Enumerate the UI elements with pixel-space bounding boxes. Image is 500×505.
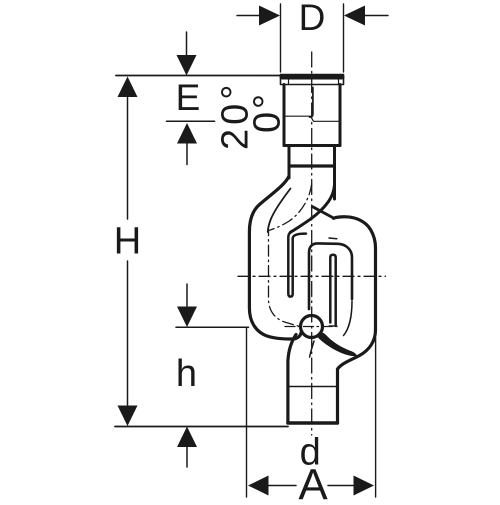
right slot (second U inner walls) [330,255,335,325]
wedge under circle (merged outlines) [317,333,357,357]
svg-text:D: D [299,0,326,38]
E bottom arrow (up) [177,123,197,144]
svg-text:0°: 0° [247,91,289,133]
inner arch of right loop [309,243,352,309]
inlet pipe joint line [289,164,335,167]
dimension H line [127,96,129,219]
inlet pipe below socket [288,146,291,179]
trap body outer arch and right wall down to outlet [334,217,376,423]
dimension A extension lines [246,327,248,497]
A right arrow [354,476,375,496]
inlet socket flange [281,75,344,85]
dimension D extension lines [280,4,282,72]
A left arrow [248,476,269,496]
svg-text:E: E [176,77,201,118]
left slot (first U inner walls) [288,232,306,296]
weir circle [301,316,323,338]
h bottom arrow (up) [177,427,197,448]
circle horizontal centerline [285,326,338,328]
svg-text:h: h [176,353,197,395]
outlet inner S diagonal [310,341,314,357]
outlet socket line [288,386,338,388]
inner arch thin continuation into outlet [344,301,353,336]
seam diagonal [312,207,333,218]
trap body outer outline left side [249,176,301,339]
svg-text:A: A [298,461,328,501]
H bottom arrow [118,406,138,427]
inlet bend inner line [268,189,291,233]
outlet left wall [288,335,296,424]
dimension h [186,284,188,306]
small dash above inner arch [329,237,337,240]
pipe right wall sweeping into first-U inner wall [291,166,335,232]
D left arrow [237,15,260,17]
flow path centerline (dash-dot curve) [269,184,312,326]
top reference line (H/E datum) [116,75,281,77]
horizontal centerline (dash-dot) [238,275,386,277]
D right arrow [365,15,388,17]
svg-text:H: H [114,221,141,263]
H top arrow [118,77,138,98]
inlet socket body [283,85,286,146]
h top arrow (down) [177,307,197,328]
bottom reference line (H/h datum) [115,426,288,428]
E bottom reference line [167,120,215,122]
h top reference line [176,326,249,328]
outlet bottom edge [288,421,338,424]
vertical centerline (dash-dot) [311,52,313,435]
dimension E [186,32,188,56]
E top arrow (down) [177,55,197,76]
socket break lines [284,115,311,117]
